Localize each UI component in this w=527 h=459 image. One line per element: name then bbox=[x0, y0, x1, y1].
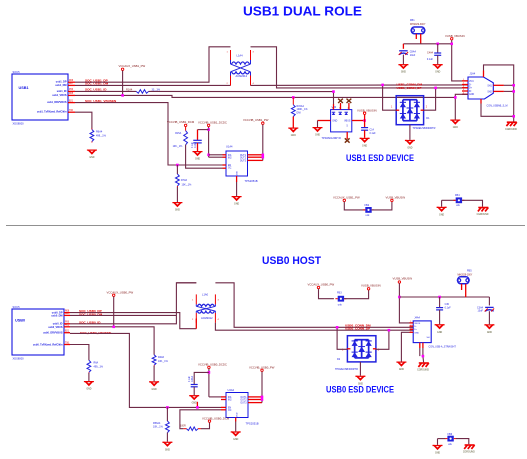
pin R05 usb0 bbox=[64, 326, 70, 328]
svg-text:OUT3: OUT3 bbox=[240, 403, 247, 405]
TPD stub3 bbox=[348, 103, 350, 110]
junction junction shield b bbox=[422, 355, 425, 358]
svg-text:3: 3 bbox=[253, 52, 255, 54]
svg-text:C8A4: C8A4 bbox=[410, 51, 417, 54]
wire usb0 DP bbox=[70, 313, 196, 329]
junction junction TPD ID bbox=[332, 90, 335, 93]
pin1 D1 bbox=[391, 107, 393, 109]
svg-text:100K,_1%: 100K,_1% bbox=[297, 108, 309, 111]
label R6A bbox=[94, 362, 99, 365]
svg-text:SH: SH bbox=[426, 337, 429, 339]
wire usb0 EN bbox=[70, 333, 221, 407]
svg-text:VCCAUX_USB0_PW: VCCAUX_USB0_PW bbox=[107, 290, 134, 294]
svg-text:R07: R07 bbox=[65, 313, 70, 315]
net label SOC_USB0_DP bbox=[79, 309, 102, 313]
TPS U1A4 GND stub bbox=[236, 176, 238, 182]
J1A4 pin stub 91 bbox=[462, 90, 468, 92]
label D2 bbox=[337, 358, 341, 361]
J1A4 pin number 4 bbox=[463, 89, 465, 91]
U4 IN stub 399.5 bbox=[221, 399, 226, 401]
wire cap C4 gnd b bbox=[193, 387, 195, 395]
svg-text:4: 4 bbox=[218, 319, 220, 321]
net label SOC_USB1_DM bbox=[85, 82, 109, 86]
wire usb0 VBUS bbox=[70, 327, 154, 355]
net label SOC_USB1_VBUSEN bbox=[85, 99, 117, 103]
wire usb0 link right bbox=[344, 290, 369, 299]
choke pin2 bbox=[227, 83, 229, 85]
junction junction esd0 left bbox=[336, 326, 339, 329]
svg-text:ACM2012: ACM2012 bbox=[201, 316, 213, 320]
wire usb0 ID bbox=[70, 283, 196, 324]
svg-text:GND: GND bbox=[439, 214, 444, 216]
svg-text:R06: R06 bbox=[69, 80, 74, 82]
capacitor C4A 0.1uF bbox=[434, 53, 441, 55]
resistor R6 499_1% bbox=[90, 129, 94, 143]
svg-text:D+: D+ bbox=[414, 329, 418, 331]
pin number R05 bbox=[69, 93, 74, 95]
svg-text:usb0_ID: usb0_ID bbox=[53, 323, 63, 326]
TPD pin4 bbox=[347, 108, 349, 110]
pin T06 usb1 bbox=[68, 111, 75, 113]
ferrite bead FB5 bbox=[457, 277, 469, 284]
svg-text:GND: GND bbox=[399, 369, 404, 371]
svg-text:U4A4: U4A4 bbox=[228, 388, 235, 392]
capacitor C1A4 0.1uF bbox=[193, 140, 202, 143]
svg-text:GND: GND bbox=[401, 72, 406, 74]
wire C4A drop bbox=[437, 44, 439, 53]
svg-text:unk: unk bbox=[366, 214, 371, 217]
wire usb0 DM bbox=[70, 314, 176, 316]
wire usb1 VBUS bbox=[75, 95, 455, 97]
ground J4 bbox=[396, 362, 406, 372]
wire vbus rail b bbox=[399, 296, 489, 298]
J1A4 SH2 bbox=[493, 90, 504, 92]
svg-text:TPD2EUSB30DRTR: TPD2EUSB30DRTR bbox=[413, 127, 436, 130]
svg-text:USB0 ESD DEVICE: USB0 ESD DEVICE bbox=[326, 385, 394, 395]
svg-text:EN: EN bbox=[228, 407, 232, 409]
TPD right pin bbox=[352, 120, 365, 122]
value FB1 bbox=[410, 23, 426, 26]
svg-text:1: 1 bbox=[342, 350, 344, 352]
svg-text:VCCVIB_USB1_PW: VCCVIB_USB1_PW bbox=[243, 118, 269, 122]
value R15A bbox=[173, 145, 184, 148]
power flag VUSB_VBUSIN b1 bbox=[361, 284, 381, 290]
chassis ground J4 bbox=[417, 363, 429, 372]
svg-text:GND: GND bbox=[487, 332, 492, 334]
pin number R06 bbox=[69, 80, 74, 82]
wire fb6 left bbox=[438, 438, 446, 440]
esd diode array D2 TPD2EUSB30 usb0 bbox=[347, 336, 377, 362]
wire DCDC to cap bbox=[198, 129, 209, 131]
wire rail over right bbox=[215, 283, 413, 328]
wire DCDC to IN1 bbox=[209, 154, 223, 156]
esd ic U30 TPD4S012 bbox=[331, 106, 352, 132]
U4 GND stub bbox=[235, 418, 237, 422]
wire DCDC drop b bbox=[208, 369, 210, 397]
pin2 D2 bbox=[378, 350, 380, 352]
wire PW flag to OUT bbox=[262, 124, 264, 160]
junction junction vbus rail b bbox=[398, 296, 401, 299]
power flag VUSB_VBUSIN tpd bbox=[357, 109, 377, 115]
svg-text:U1A4: U1A4 bbox=[226, 145, 233, 149]
svg-text:499,_1%: 499,_1% bbox=[94, 366, 104, 369]
label D1 bbox=[426, 117, 430, 120]
wire PW flag to OUT b bbox=[261, 372, 263, 403]
wire vbus to connector bbox=[452, 40, 468, 81]
wire DCDC drop bbox=[208, 127, 210, 157]
stub above EN bbox=[196, 402, 198, 408]
TPD right net lower bbox=[364, 121, 366, 128]
svg-text:unk: unk bbox=[338, 304, 343, 307]
svg-text:ACM2012: ACM2012 bbox=[236, 74, 248, 78]
TPD stub2 bbox=[340, 103, 342, 110]
svg-text:GND: GND bbox=[89, 157, 94, 159]
capacitor C30 0.1uF bbox=[436, 308, 443, 310]
label L10 bbox=[202, 292, 209, 296]
svg-text:MH2029-300Y: MH2029-300Y bbox=[410, 23, 426, 26]
svg-text:CGROUND: CGROUND bbox=[417, 370, 429, 372]
svg-text:usb0_DP: usb0_DP bbox=[52, 311, 63, 314]
net label USB1_CONN_DM bbox=[397, 82, 423, 86]
svg-text:OUT3: OUT3 bbox=[240, 161, 247, 163]
svg-text:0.1uF: 0.1uF bbox=[370, 132, 377, 135]
cap C1A4 top stub bbox=[197, 130, 199, 141]
wire choke TR to right rail bbox=[251, 47, 469, 88]
pin P06 usb1 bbox=[68, 90, 75, 92]
label R4A6 bbox=[158, 356, 165, 359]
svg-text:usb1_DM: usb1_DM bbox=[55, 84, 66, 87]
svg-text:499,_1%: 499,_1% bbox=[96, 135, 107, 138]
junction junction C4A bbox=[436, 43, 439, 46]
value FB3 bbox=[338, 304, 343, 307]
resistor R15A4 100K bbox=[291, 97, 295, 116]
power flag VCCVIB_USB1_PW out bbox=[243, 118, 269, 124]
J1A4 pin stub 94.3 bbox=[462, 93, 468, 95]
pin number R07 bbox=[69, 83, 74, 85]
power flag VCCVIB_USB0_PW out bbox=[249, 365, 275, 371]
svg-text:0.1uF: 0.1uF bbox=[192, 142, 194, 148]
svg-text:10K,_1%: 10K,_1% bbox=[182, 183, 193, 186]
R15A4 lower stub bbox=[292, 117, 294, 128]
svg-text:10K,_1%: 10K,_1% bbox=[158, 360, 169, 363]
junction junction vbus rail R15A4 bbox=[292, 96, 295, 99]
svg-text:FB6: FB6 bbox=[448, 433, 453, 436]
svg-text:P06: P06 bbox=[69, 89, 74, 91]
capacitor C8A 10uF bbox=[399, 51, 409, 55]
junction junction DCDC IN1 bbox=[207, 154, 210, 157]
label R1A4 bbox=[126, 88, 133, 91]
U4 OUT stub 402.6 bbox=[248, 402, 262, 404]
value R53 bbox=[153, 426, 164, 429]
junction junction SH1 bbox=[512, 84, 515, 87]
usb0 pin number R07 bbox=[65, 313, 70, 315]
svg-text:10uF: 10uF bbox=[478, 310, 484, 313]
FB5 stub right bbox=[465, 284, 467, 297]
TPD right net upper bbox=[364, 115, 366, 121]
choke body L10 bbox=[196, 294, 215, 322]
svg-text:1: 1 bbox=[192, 300, 194, 302]
svg-text:GND: GND bbox=[233, 439, 238, 441]
svg-text:GND: GND bbox=[407, 148, 412, 150]
svg-text:GND: GND bbox=[332, 120, 337, 122]
J1A4 pin number 1 bbox=[463, 79, 465, 81]
svg-text:USB1_CONN_DP: USB1_CONN_DP bbox=[397, 86, 422, 90]
TPS U1A4 EN/OC stub 168.2 bbox=[223, 167, 227, 169]
pin number T06 bbox=[69, 110, 74, 112]
svg-text:USB0: USB0 bbox=[15, 319, 25, 323]
net label SOC_USB0_DM bbox=[79, 312, 103, 316]
svg-text:OUT1: OUT1 bbox=[240, 397, 247, 399]
net label SOC_USB0_ID bbox=[79, 320, 101, 324]
capacitor C4 0.1uF b bbox=[191, 385, 198, 387]
choke pin4 bbox=[253, 83, 255, 85]
svg-text:FB5: FB5 bbox=[467, 270, 472, 273]
choke0 pin4 bbox=[218, 319, 220, 321]
svg-text:D1: D1 bbox=[426, 117, 430, 120]
svg-text:2: 2 bbox=[227, 83, 229, 85]
wire esd0 gnd drop bbox=[359, 362, 361, 376]
cap C8A stub bbox=[402, 44, 404, 49]
wire link left bbox=[344, 202, 365, 210]
title USB1 DUAL ROLE bbox=[243, 3, 362, 18]
power flag VUSB_VBUSIN b2 bbox=[393, 277, 413, 284]
svg-text:SOC5: SOC5 bbox=[13, 70, 21, 74]
ground under C8A bbox=[398, 64, 408, 74]
ground FB6 left bbox=[433, 445, 443, 455]
wire R7 to gnd bbox=[176, 187, 178, 202]
usb0 DP into BL bbox=[195, 319, 197, 329]
ground under C14 bbox=[360, 138, 370, 148]
wire C8A gnd bbox=[402, 55, 404, 65]
wire usb0 link left bbox=[319, 289, 334, 299]
svg-text:GND: GND bbox=[435, 453, 440, 455]
wire usb1 DRVVBUS EN bbox=[75, 103, 223, 165]
junction junction DCDC cap bbox=[207, 128, 210, 131]
FB5 stub left bbox=[461, 284, 463, 290]
junction junction shield bottom bbox=[512, 115, 515, 118]
svg-text:USB1 ESD DEVICE: USB1 ESD DEVICE bbox=[346, 153, 414, 163]
svg-text:XDS8000: XDS8000 bbox=[13, 122, 25, 126]
power flag VUSB_VBUSIN top bbox=[445, 34, 465, 40]
label FB1 bbox=[410, 19, 415, 22]
svg-text:3: 3 bbox=[218, 300, 220, 302]
svg-text:1: 1 bbox=[227, 52, 229, 54]
wire usb1 TxRx bbox=[75, 112, 92, 129]
pin B21 usb1 bbox=[68, 102, 75, 104]
wire R7 drop bbox=[176, 165, 178, 174]
svg-text:IN1: IN1 bbox=[228, 155, 232, 157]
net label USB1_CONN_DP bbox=[397, 86, 422, 90]
wire usb1 ID b bbox=[149, 90, 334, 92]
svg-text:FB1: FB1 bbox=[410, 19, 415, 22]
junction junction esd0 right bbox=[388, 329, 391, 332]
wire esd gnd drop bbox=[409, 125, 411, 140]
label FB3 bbox=[337, 292, 342, 295]
label TPS2051B b bbox=[246, 422, 259, 426]
cap C1A4 to gnd bbox=[197, 143, 199, 151]
label TPD2EUSB30 b bbox=[335, 368, 358, 371]
svg-text:usb0_DM: usb0_DM bbox=[51, 315, 62, 318]
svg-text:TPS2051B: TPS2051B bbox=[245, 179, 258, 183]
TPD pin2 bbox=[332, 108, 334, 110]
label R4A value bbox=[180, 425, 186, 428]
svg-text:J4A4: J4A4 bbox=[414, 316, 420, 319]
wire shield SH2 link bbox=[504, 90, 514, 92]
TPD stub1 red bbox=[333, 104, 335, 110]
label R7 bbox=[181, 179, 188, 182]
wire usb0 PW drop bbox=[113, 297, 115, 327]
wire choke BR to rail bbox=[215, 323, 413, 330]
ground TPS U1A4 bbox=[232, 196, 242, 206]
junction junction usb0 PW vbus bbox=[112, 326, 115, 329]
TPS U1A4 OUT stub 157.2 bbox=[248, 156, 263, 158]
label C3 bbox=[477, 306, 484, 309]
power flag VCCVIB_USB0_PW left bbox=[107, 290, 134, 296]
label L1A4 bbox=[237, 54, 244, 58]
ferrite FB2 bbox=[363, 207, 374, 213]
capacitor C14 0.1uF bbox=[361, 128, 368, 131]
resistor R15A 10K bbox=[184, 127, 188, 145]
TPD left pin bbox=[318, 120, 331, 122]
label C4 b bbox=[191, 376, 194, 382]
J1A4 pin stub 80.9 bbox=[462, 80, 468, 82]
J1A4 top pin bbox=[483, 71, 485, 78]
junction junction esd right bbox=[434, 87, 437, 90]
ground under R6 bbox=[87, 150, 97, 160]
svg-text:ID: ID bbox=[469, 91, 472, 93]
value C4 b bbox=[189, 376, 191, 382]
J1A4 bottom pin bbox=[480, 99, 482, 104]
svg-text:R1A4: R1A4 bbox=[126, 88, 133, 91]
svg-text:R15A4: R15A4 bbox=[297, 105, 305, 108]
title USB0 HOST bbox=[262, 255, 321, 267]
ground under R15A4 bbox=[288, 128, 298, 138]
svg-text:VCC: VCC bbox=[469, 81, 474, 83]
ground under R53 bbox=[162, 442, 172, 452]
svg-text:VCCVIB_USB1_DCM: VCCVIB_USB1_DCM bbox=[167, 120, 195, 124]
svg-text:USB1: USB1 bbox=[19, 86, 29, 90]
wire usb1 ID a bbox=[75, 90, 136, 92]
resistor R7 10K bbox=[176, 174, 180, 187]
SoC block USB0 bbox=[12, 305, 64, 361]
junction junction EN R53 bbox=[166, 406, 169, 409]
pin B21 usb0 bbox=[64, 332, 70, 334]
label R15A bbox=[175, 132, 181, 135]
svg-text:IN2: IN2 bbox=[228, 399, 232, 401]
resistor R4A6 usb0 VBUS pulldown bbox=[152, 355, 156, 367]
power flag VUSB_VBUSIN link bbox=[386, 195, 406, 201]
resistor R4A 100R bbox=[184, 427, 202, 431]
svg-text:MH2029-300Y: MH2029-300Y bbox=[458, 275, 473, 277]
svg-text:GND: GND bbox=[237, 171, 239, 176]
wire flag drop to VBUS row bbox=[122, 71, 124, 96]
ground under C30 bbox=[435, 324, 445, 334]
net label USB0_CONN_DP bbox=[345, 327, 370, 331]
power flag VCCVIB_USB1_PW link bbox=[333, 195, 360, 201]
choke pin1 bbox=[227, 52, 229, 54]
wire gnd link right bbox=[462, 200, 482, 207]
svg-text:C30: C30 bbox=[445, 303, 450, 306]
wire C30 gnd bbox=[439, 310, 441, 324]
J4 pin number 1 bbox=[410, 321, 412, 323]
ground usb1 connector bbox=[450, 120, 460, 130]
svg-text:2: 2 bbox=[378, 350, 380, 352]
svg-text:R6A4: R6A4 bbox=[96, 131, 103, 134]
ground under C4A bbox=[433, 64, 443, 74]
wire usb1 gnd pin wire bbox=[455, 94, 468, 119]
svg-text:GND: GND bbox=[453, 127, 458, 129]
svg-text:unk: unk bbox=[456, 204, 461, 207]
ground under D2 bbox=[355, 376, 365, 386]
TPS U1A4 OUT stub 154.8 bbox=[248, 154, 263, 156]
junction junction OUT1 bbox=[262, 154, 265, 157]
svg-text:GND: GND bbox=[362, 145, 367, 147]
esd diode array D1 TPD2EUSB30 bbox=[396, 96, 424, 125]
label FB5 bbox=[467, 270, 472, 273]
svg-text:CON_USB-A_STRAIGHT: CON_USB-A_STRAIGHT bbox=[429, 345, 457, 348]
junction junction OUT1 b bbox=[261, 396, 264, 399]
TPS U1A4 OUT stub 160.4 bbox=[248, 159, 263, 161]
wire C3 drop bbox=[488, 297, 490, 305]
text USB1 ESD DEVICE bbox=[346, 153, 414, 163]
junction junction esd left bbox=[381, 84, 384, 87]
choke0 pin1 bbox=[192, 300, 194, 302]
junction junction R7 EN bbox=[176, 164, 179, 167]
resistor R53 10K bbox=[166, 421, 170, 433]
wire vbus drop to J4 bbox=[399, 283, 413, 323]
svg-text:OC: OC bbox=[228, 410, 232, 412]
value C30 bbox=[445, 306, 452, 309]
svg-text:4: 4 bbox=[253, 83, 255, 85]
power switch U1A4 TPS2051B bbox=[226, 145, 248, 176]
svg-text:VUSB_VBUSIN: VUSB_VBUSIN bbox=[445, 34, 465, 38]
svg-text:C3A4: C3A4 bbox=[477, 306, 484, 309]
svg-text:5: 5 bbox=[347, 126, 349, 128]
value C4A bbox=[427, 58, 434, 61]
wire OC loop right bbox=[201, 422, 210, 428]
label FB6 bbox=[448, 433, 453, 436]
svg-text:VBUS: VBUS bbox=[414, 323, 420, 325]
svg-text:CGROUND: CGROUND bbox=[505, 129, 517, 131]
wire gnd link left bbox=[442, 199, 456, 201]
choke body L1A4 bbox=[231, 50, 251, 86]
svg-text:IN1: IN1 bbox=[228, 397, 232, 399]
TPD pin3 bbox=[339, 108, 341, 110]
svg-text:VBUS: VBUS bbox=[344, 120, 351, 122]
U4 EN stub 407.4 bbox=[221, 406, 226, 408]
wire DCDC to cap b bbox=[194, 372, 209, 384]
ferrite FB6 bbox=[445, 436, 456, 442]
pin number B21 bbox=[69, 100, 74, 102]
junction flag-vbus junction bbox=[121, 94, 124, 97]
wire esd left tap bbox=[383, 85, 397, 110]
value 100K bbox=[297, 108, 309, 111]
svg-text:J1A4: J1A4 bbox=[470, 73, 476, 76]
svg-text:1: 1 bbox=[391, 107, 393, 109]
svg-text:R15A: R15A bbox=[175, 132, 181, 135]
ground under C1A4 bbox=[193, 151, 203, 161]
value R6 bbox=[96, 135, 107, 138]
wire C3 gnd bbox=[488, 311, 490, 324]
svg-text:usb1_TxRXand_RefClkIn: usb1_TxRXand_RefClkIn bbox=[37, 111, 67, 114]
pin R06 usb1 bbox=[68, 81, 75, 83]
wire gnd link left drop bbox=[441, 200, 443, 207]
connector J4 USB-A bbox=[413, 316, 431, 342]
svg-text:DNI: DNI bbox=[297, 111, 301, 114]
wire R53 gnd wire bbox=[166, 433, 168, 442]
svg-text:usb1_DRVVBUS: usb1_DRVVBUS bbox=[47, 101, 67, 104]
label FB4 bbox=[455, 194, 460, 197]
